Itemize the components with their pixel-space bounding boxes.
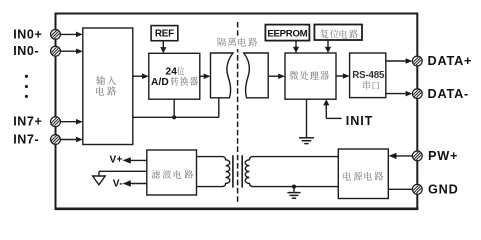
- wire terminal IN7+ to input circuit: [60, 121, 78, 123]
- white mask behind isolation label: [214, 37, 262, 50]
- terminal screw DATA+: [412, 56, 423, 67]
- wire EEPROM to microprocessor: [295, 41, 297, 48]
- label 输入: [96, 76, 105, 85]
- svg-text:IN0+: IN0+: [13, 27, 42, 41]
- wire RS-485 to DATA+: [386, 60, 410, 62]
- block EEPROM: [265, 25, 309, 41]
- terminal screw IN7-: [50, 134, 61, 145]
- wire terminal IN7- to input circuit: [60, 139, 78, 141]
- label 隔离电路: [218, 38, 226, 47]
- wire microprocessor ground drop: [306, 99, 308, 138]
- wire INIT: [325, 104, 327, 119]
- block U4 RS-485 serial port: [350, 53, 386, 98]
- transformer core bar left: [232, 155, 234, 187]
- svg-text:IN7+: IN7+: [13, 115, 42, 129]
- svg-text:PW+: PW+: [428, 149, 458, 163]
- terminal screw GND: [412, 184, 423, 195]
- transformer T1 primary winding and leads: [197, 157, 230, 187]
- label 串口: [363, 81, 370, 90]
- svg-text:GND: GND: [428, 183, 459, 197]
- wire filter to analog ground: [99, 170, 147, 172]
- isolation coupler right half: [244, 53, 268, 98]
- wire A/D to isolation: [200, 75, 208, 77]
- wire secondary ground stub: [293, 187, 295, 193]
- wire RS-485 to DATA-: [386, 93, 410, 95]
- wire GND to power circuit: [388, 188, 412, 190]
- wire microprocessor to RS-485: [336, 75, 345, 77]
- wire REF to A/D: [162, 41, 164, 48]
- svg-text:DATA+: DATA+: [428, 54, 473, 68]
- block REF voltage reference: [151, 26, 178, 41]
- junction dot analog ground: [172, 115, 176, 119]
- svg-text:V+: V+: [110, 155, 123, 166]
- svg-text:DATA-: DATA-: [428, 87, 470, 101]
- ellipsis between input channels: [25, 75, 28, 78]
- label 微处理器: [290, 71, 299, 80]
- svg-text:INIT: INIT: [346, 114, 373, 128]
- svg-text:RS-485: RS-485: [352, 70, 385, 81]
- wire A/D ground drop: [173, 99, 175, 117]
- svg-text:V-: V-: [113, 179, 123, 190]
- wire analog ground bus: [133, 116, 219, 118]
- transformer T1 secondary winding and leads: [245, 157, 338, 187]
- wire PW+ to power circuit: [394, 155, 412, 157]
- terminal screw IN7+: [50, 116, 61, 127]
- terminal screw IN0+: [50, 29, 61, 40]
- junction dot secondary ground: [292, 185, 296, 189]
- terminal screw PW+: [412, 150, 423, 161]
- ground AGND triangle: [93, 176, 106, 185]
- svg-text:A/D: A/D: [151, 77, 169, 88]
- svg-text:IN7-: IN7-: [13, 132, 39, 146]
- label 滤波电路: [152, 170, 160, 179]
- label 电源电路: [343, 172, 351, 180]
- wire isolation to microprocessor: [268, 75, 280, 77]
- label 电路: [96, 87, 104, 96]
- block U1 input circuit 输入电路: [83, 28, 133, 145]
- svg-text:EEPROM: EEPROM: [267, 28, 307, 39]
- label 复位电路: [320, 29, 328, 38]
- ground GND1 digital: [299, 137, 314, 139]
- block reset circuit 复位电路: [314, 25, 362, 41]
- wire terminal IN0- to input circuit: [60, 50, 78, 52]
- wire input circuit to A/D: [133, 75, 144, 77]
- transformer core bar right: [241, 155, 243, 187]
- svg-text:IN0-: IN0-: [13, 44, 39, 58]
- block U3 microprocessor 微处理器: [285, 53, 336, 99]
- svg-text:24: 24: [166, 66, 178, 77]
- isolation coupler left half: [211, 53, 234, 98]
- wire isolation left ground stub: [218, 98, 220, 118]
- module enclosure frame: [56, 14, 418, 209]
- wire filter to V-: [128, 183, 147, 185]
- terminal screw DATA-: [412, 88, 423, 99]
- terminal screw IN0-: [50, 46, 61, 57]
- block filter circuit 滤波电路: [147, 150, 197, 195]
- wire reset circuit to microprocessor: [327, 40, 329, 48]
- module frame bottom edge: [55, 208, 419, 211]
- isolation boundary dashed line: [237, 22, 239, 204]
- wire filter to V+: [128, 159, 147, 161]
- ground GND2 power: [287, 192, 300, 194]
- svg-text:REF: REF: [155, 29, 174, 40]
- block U2 24-bit A/D converter: [149, 53, 200, 99]
- wire terminal IN0+ to input circuit: [60, 33, 78, 35]
- block power circuit 电源电路: [338, 149, 388, 199]
